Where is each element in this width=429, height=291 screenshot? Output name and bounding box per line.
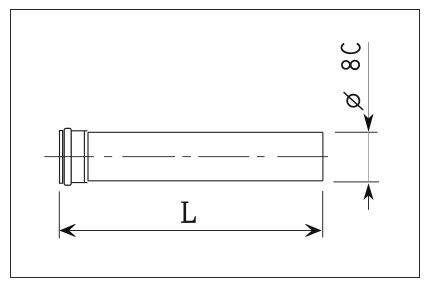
dimension L right extension line — [322, 191, 324, 238]
label dia80 digit 8 (rotated, two circles) — [342, 61, 350, 69]
centerline — [44, 156, 328, 158]
dimension dia80 line between extensions — [368, 132, 370, 182]
label dia80 diameter symbol (rotated) — [347, 95, 359, 107]
label dia80 digit 0 (rotated, open-top oval) — [341, 43, 359, 53]
socket body — [71, 131, 88, 183]
socket mouth — [60, 131, 63, 184]
dimension dia80 leader line upper — [368, 42, 370, 126]
dimension dia80 bottom extension line — [334, 181, 380, 183]
dimension L left extension line — [58, 191, 60, 238]
gasket bead — [64, 128, 71, 185]
dimension L left arrowhead — [60, 224, 75, 236]
dimension dia80 tail line below — [368, 185, 370, 210]
dimension L line — [66, 230, 314, 232]
pipe body — [88, 132, 323, 181]
label L — [181, 202, 196, 223]
dimension dia80 up arrowhead — [364, 185, 373, 199]
dimension dia80 down arrowhead — [364, 115, 373, 131]
dimension dia80 top extension line — [335, 131, 378, 133]
dimension L right arrowhead — [306, 224, 321, 236]
